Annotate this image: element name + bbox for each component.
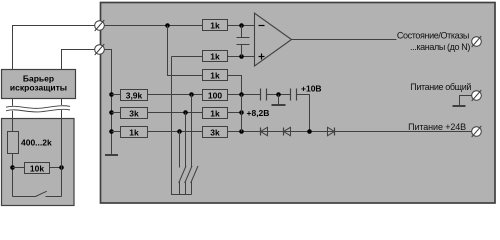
- wire: row1 minus input: [100, 25, 255, 27]
- node: +10V tap on rail: [307, 129, 312, 134]
- node: rowA right junction: [239, 92, 244, 97]
- node: 10k right: [59, 165, 64, 170]
- svg-text:1k: 1k: [129, 127, 139, 137]
- svg-text:3,9k: 3,9k: [126, 90, 143, 100]
- capacitor C3: [290, 89, 292, 101]
- terminal T5 +24V: [472, 126, 482, 137]
- svg-text:Питание +24В: Питание +24В: [408, 122, 466, 132]
- op-amp U1: [255, 13, 292, 66]
- svg-text:+8,2В: +8,2В: [247, 108, 270, 118]
- svg-text:1k: 1k: [210, 20, 220, 30]
- module body (gray block): [101, 3, 496, 204]
- svg-text:Состояние/Отказы: Состояние/Отказы: [397, 31, 469, 41]
- svg-text:Питание общий: Питание общий: [410, 82, 471, 92]
- resistor R1 1k: [203, 20, 228, 31]
- node: rowB switch tap: [183, 110, 188, 115]
- wire: sensor left leg top: [12, 119, 14, 132]
- barrier box (Барьер искрозащиты): [2, 70, 76, 99]
- resistor R2 1k: [203, 51, 228, 62]
- terminal T1: [95, 20, 105, 31]
- wire: sensor right leg: [61, 119, 63, 197]
- capacitor C2: [260, 89, 262, 101]
- resistor R9 3k: [203, 127, 228, 138]
- node: left bus rowA: [109, 92, 114, 97]
- terminal T4 supply common: [472, 90, 482, 101]
- resistor R8 1k: [121, 127, 148, 138]
- switch in sensor: [13, 196, 36, 198]
- node: row1 junction: [165, 23, 170, 28]
- node: left bus rowB: [109, 110, 114, 115]
- svg-text:3k: 3k: [129, 108, 139, 118]
- wire: row2 plus input: [172, 56, 255, 58]
- svg-text:400...2k: 400...2k: [21, 138, 52, 148]
- ground left bus: [105, 154, 118, 156]
- node: rowC right junction: [239, 129, 244, 134]
- diode D3: [328, 127, 335, 135]
- cable break (wavy lines): [6, 106, 70, 109]
- wire: barrier to cable break right: [61, 99, 63, 106]
- svg-text:1k: 1k: [210, 108, 220, 118]
- node: rowB right junction: [239, 110, 244, 115]
- sensor box: [2, 119, 75, 206]
- diode D2: [283, 128, 285, 136]
- wire: cable break to sensor box right: [61, 110, 63, 119]
- resistor R6 3k: [121, 108, 148, 119]
- svg-text:...каналы (до N): ...каналы (до N): [410, 42, 470, 52]
- wire: R3 right down to rowA: [228, 76, 242, 132]
- svg-text:искрозащиты: искрозащиты: [10, 83, 67, 93]
- diode D1: [260, 128, 262, 136]
- wire: plus-input bus down to switch common: [172, 57, 192, 195]
- resistor R5 100: [203, 90, 228, 101]
- wire: cable break to sensor box left: [12, 111, 14, 119]
- node: rowC switch tap: [177, 129, 182, 134]
- resistor R3 1k: [203, 70, 228, 81]
- wire: op-amp output: [292, 39, 397, 41]
- terminal T3 state output: [472, 36, 482, 47]
- svg-text:100: 100: [208, 90, 222, 100]
- node: row2 right junction: [239, 54, 244, 59]
- node: rowA switch tap: [189, 92, 194, 97]
- wire: terminal2 to barrier: [62, 50, 100, 70]
- wire: terminal1 to barrier (left loop): [13, 26, 100, 70]
- svg-text:3k: 3k: [210, 127, 220, 137]
- switch S1 (row C): [179, 132, 181, 168]
- resistor R7 1k: [203, 108, 228, 119]
- wire: row A: [112, 94, 261, 96]
- resistor 400...2k: [8, 132, 19, 154]
- svg-text:1k: 1k: [210, 51, 220, 61]
- svg-text:1k: 1k: [210, 70, 220, 80]
- wire: row B: [112, 112, 242, 114]
- node: ground tap: [276, 92, 281, 97]
- node: row1 right junction: [239, 23, 244, 28]
- wire: row C (+24V rail): [112, 131, 477, 133]
- vertical bus x241 rows A-C: [241, 95, 243, 132]
- node: left bus rowC: [109, 129, 114, 134]
- switch S2 (row B): [185, 113, 187, 168]
- ground rowA: [278, 95, 280, 105]
- wire: sensor left leg lower: [12, 154, 14, 197]
- wire: C2 to C3: [267, 94, 291, 96]
- wire: barrier to cable break left: [12, 99, 14, 106]
- ground common supply: [460, 96, 472, 106]
- wire: 10k to right leg: [50, 167, 62, 169]
- node: 10k left: [10, 165, 15, 170]
- resistor 10k: [25, 163, 50, 174]
- wire: to 10k: [13, 167, 25, 169]
- svg-text:10k: 10k: [30, 164, 44, 174]
- wire: C3 to +10V corner: [297, 95, 310, 132]
- terminal T2: [95, 44, 105, 55]
- capacitor C1 between inputs: [241, 26, 243, 38]
- wire: row1 junction down to R3: [168, 26, 203, 76]
- svg-text:+10В: +10В: [301, 84, 322, 94]
- wire: terminal2 to left bus: [100, 50, 112, 155]
- resistor R4 3,9k: [121, 90, 148, 101]
- switch S3 (row A): [191, 95, 193, 168]
